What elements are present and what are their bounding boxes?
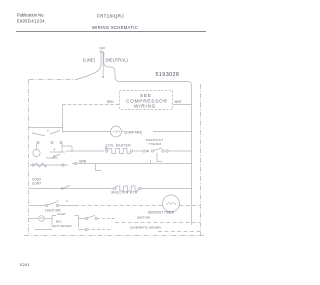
coil heater terminal right: [130, 150, 132, 152]
svg-text:COIL HEATER: COIL HEATER: [106, 144, 132, 148]
therm probe hook: [157, 153, 162, 162]
wire hook drop: [150, 160, 152, 164]
svg-text:LIGHT: LIGHT: [57, 212, 66, 216]
evap fan motor: [111, 126, 122, 137]
defrost therm arm: [154, 148, 162, 150]
mullion row contact arm: [62, 186, 70, 189]
svg-text:5995D41234: 5995D41234: [17, 19, 45, 24]
svg-text:WHT: WHT: [175, 100, 182, 104]
wire motor to bus: [179, 205, 200, 207]
compressor dashed box: [120, 91, 173, 110]
mullion heater element: [116, 186, 138, 191]
svg-text:MULLION HTR: MULLION HTR: [112, 191, 138, 195]
svg-text:Publication No.: Publication No.: [17, 13, 45, 18]
wire grn jog: [96, 164, 102, 171]
coil heater terminal left: [105, 150, 107, 152]
svg-text:WIRING: WIRING: [134, 104, 156, 110]
wire light row: [29, 205, 46, 207]
wire light2 row left: [29, 218, 39, 220]
coil heater element: [108, 149, 130, 154]
light2 switch arm: [88, 215, 95, 218]
timer motor: [33, 149, 40, 156]
svg-text:BLK: BLK: [56, 220, 62, 224]
wire light row right: [59, 205, 75, 207]
header publication text: [17, 13, 45, 24]
mullion heater terminal right: [139, 187, 141, 189]
timer contact arm: [52, 154, 60, 158]
svg-text:CONT: CONT: [32, 182, 41, 186]
wire light2 mid: [44, 218, 52, 220]
svg-text:GRN: GRN: [79, 160, 87, 164]
power cord ground wire: [102, 52, 104, 76]
lamp assembly box: [52, 216, 79, 228]
wire row y165: [30, 164, 68, 166]
wire row y151 left: [66, 150, 104, 152]
wire evap row to bus: [153, 131, 192, 133]
wire mullion row: [29, 188, 114, 190]
light bulb: [39, 216, 45, 222]
wire motor right stub: [122, 131, 125, 133]
wire bottom dashed row right: [158, 231, 200, 233]
wire mullion to bus: [141, 188, 191, 190]
wire row y131: [63, 131, 111, 133]
terminal row y165 right: [62, 164, 64, 166]
svg-text:(MOTOR): (MOTOR): [137, 216, 150, 220]
ground arrowhead: [102, 76, 104, 79]
wire compressor row left: [63, 104, 120, 106]
wire row y163: [72, 163, 192, 165]
zigzag row y165: [35, 163, 47, 167]
svg-text:(EVAP FAN): (EVAP FAN): [125, 131, 142, 135]
motor winding mark: [167, 203, 176, 205]
wire light row dashed: [75, 205, 163, 207]
terminal row y163: [74, 162, 76, 164]
node riser x62: [62, 105, 64, 134]
power cord neutral prong: [104, 52, 192, 86]
light2 switch terminals: [85, 217, 87, 219]
wire heater to therm: [133, 150, 143, 152]
svg-text:THERM: THERM: [149, 142, 162, 146]
evap fan winding mark: [113, 131, 119, 133]
svg-text:NOT SHOWN: NOT SHOWN: [53, 224, 72, 228]
terminal row y165 left: [32, 164, 34, 166]
svg-text:(LINE): (LINE): [83, 58, 96, 63]
wire row y127: [29, 127, 63, 129]
junction dot mullion: [61, 188, 63, 190]
light switch terminal right: [56, 204, 58, 206]
neutral bus wire: [191, 86, 193, 225]
cabinet border top: [29, 79, 76, 81]
mullion heater terminal left: [113, 187, 115, 189]
terminal pair y151: [105, 147, 107, 149]
defrost therm contacts: [151, 150, 153, 152]
schematic text labels: [32, 46, 182, 230]
defrost timer contact 1: [33, 132, 45, 136]
wire therm to bus: [168, 150, 191, 152]
defrost timer contact 2: [50, 131, 60, 135]
wire light2 to right: [97, 218, 115, 220]
timer motor circle: [163, 195, 180, 212]
svg-text:5193028: 5193028: [156, 72, 180, 78]
defrost therm terminal right: [166, 150, 168, 152]
header rule: [16, 31, 206, 33]
timer terminal b: [51, 141, 53, 143]
wire timer motor up: [36, 144, 38, 150]
cabinet border bottom: [24, 235, 205, 237]
light switch arm: [48, 202, 57, 205]
light bulb filament: [40, 218, 43, 219]
wire row C right: [87, 229, 112, 231]
timer frame wires: [46, 144, 72, 159]
svg-text:FRT18IQRJ: FRT18IQRJ: [97, 14, 124, 19]
cabinet border right: [200, 84, 202, 236]
svg-text:E241: E241: [20, 262, 30, 267]
junction dot: [147, 150, 149, 152]
svg-text:DEFROST TIMER: DEFROST TIMER: [148, 211, 175, 215]
power cord line prong: [76, 52, 101, 80]
timer terminal c: [60, 141, 62, 143]
defrost therm terminal left: [143, 150, 145, 152]
wire row C left: [35, 229, 52, 231]
svg-text:RED: RED: [107, 100, 114, 104]
svg-text:SEE: SEE: [140, 93, 152, 99]
wire defrost timer dashed row: [115, 222, 200, 224]
wire compressor box to bus: [173, 104, 192, 106]
row C terminal: [85, 228, 87, 230]
wire row C mid: [79, 229, 85, 231]
cabinet border left: [28, 80, 30, 236]
timer terminal a: [37, 141, 39, 143]
light switch terminal left: [45, 204, 47, 206]
svg-text:(NEUTRAL): (NEUTRAL): [106, 58, 129, 63]
wire light2 right: [79, 218, 86, 220]
svg-text:WIRING SCHEMATIC: WIRING SCHEMATIC: [92, 25, 138, 30]
svg-text:SCHEMATIC SHOWN: SCHEMATIC SHOWN: [130, 226, 161, 230]
